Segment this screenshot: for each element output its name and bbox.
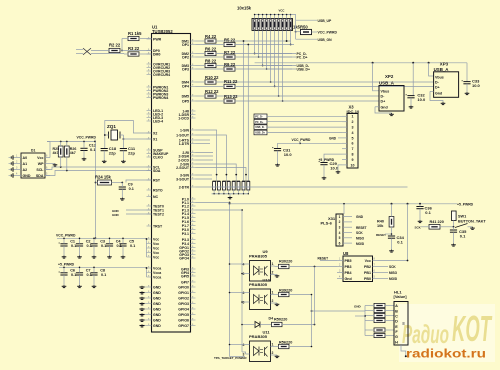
- U8 right net labels: [378, 266, 389, 268]
- wire C32 drop: [412, 63, 414, 96]
- wire vertical VCC_PWRD to cap bank: [95, 142, 97, 239]
- svg-text:1-SIN: 1-SIN: [180, 128, 189, 132]
- svg-text:D4: D4: [269, 316, 274, 320]
- svg-text:E: E: [395, 325, 398, 329]
- ground at U9 pin2: [276, 275, 278, 276]
- wire RST to C9 node: [126, 180, 152, 183]
- capacitor C33 10.0: [463, 81, 470, 83]
- svg-text:2-SOUT: 2-SOUT: [176, 166, 190, 170]
- capacitor C18 22p: [101, 148, 108, 150]
- svg-text:GPI5: GPI5: [181, 274, 189, 278]
- ground at C32: [410, 106, 412, 107]
- svg-text:C9: C9: [128, 182, 133, 186]
- svg-text:+5_PWRD: +5_PWRD: [58, 263, 75, 267]
- svg-text:C1: C1: [70, 239, 75, 243]
- capacitor C35 0.1: [450, 229, 457, 231]
- ground at C5: [122, 256, 124, 257]
- svg-text:VCC_PWRD: VCC_PWRD: [77, 135, 97, 139]
- wire HL1 bottom: [401, 345, 406, 356]
- svg-text:PWR: PWR: [153, 37, 162, 41]
- svg-text:22p: 22p: [128, 151, 135, 156]
- svg-text:NC: NC: [153, 195, 159, 199]
- svg-text:VCC_PWRD: VCC_PWRD: [318, 30, 338, 34]
- svg-text:USB_A: USB_A: [379, 81, 395, 86]
- svg-text:2: 2: [272, 351, 274, 355]
- svg-text:R2 22: R2 22: [109, 43, 121, 48]
- svg-text:1: 1: [339, 215, 341, 219]
- svg-text:USB_D-: USB_D-: [255, 126, 264, 129]
- svg-text:0.1: 0.1: [129, 187, 134, 191]
- svg-text:0.1: 0.1: [460, 233, 466, 238]
- twisted pair crossing: [83, 48, 91, 55]
- wire C33 drop: [466, 63, 468, 82]
- svg-text:A2: A2: [23, 168, 28, 172]
- resistor pack to HL1 group2: [374, 328, 385, 332]
- svg-text:3: 3: [339, 226, 341, 230]
- svg-text:RESET: RESET: [376, 233, 386, 237]
- svg-text:GND: GND: [153, 285, 161, 289]
- wire U11 input branches: [230, 344, 246, 346]
- wire Vcca pin chain: [146, 267, 148, 277]
- svg-text:PB2: PB2: [364, 265, 371, 269]
- svg-text:radiokot.ru: radiokot.ru: [406, 349, 486, 361]
- ground at C35: [453, 244, 455, 245]
- resistor R25 4k7: [58, 146, 63, 157]
- svg-text:A1: A1: [23, 162, 28, 166]
- wire Vcc pin chain: [146, 238, 148, 257]
- node PC_D-: [255, 53, 296, 55]
- svg-text:GPIO2: GPIO2: [178, 296, 189, 300]
- svg-text:DP4: DP4: [182, 85, 189, 89]
- svg-text:R12 22: R12 22: [205, 89, 219, 94]
- svg-text:Vcc: Vcc: [153, 242, 159, 246]
- svg-text:RSTO: RSTO: [153, 188, 163, 192]
- svg-text:PB0: PB0: [364, 277, 371, 281]
- wire crystal to X2: [105, 121, 152, 136]
- svg-text:USB_ON: USB_ON: [318, 38, 333, 42]
- svg-text:2-DTR: 2-DTR: [179, 185, 190, 189]
- svg-text:MOSI: MOSI: [389, 277, 397, 281]
- svg-text:GND: GND: [153, 324, 161, 328]
- svg-text:8: 8: [352, 153, 354, 157]
- svg-text:LED-4: LED-4: [153, 119, 163, 123]
- svg-text:GND: GND: [153, 291, 161, 295]
- svg-text:6: 6: [352, 142, 354, 146]
- svg-text:A: A: [395, 304, 398, 308]
- svg-text:C6: C6: [70, 268, 75, 272]
- svg-text:R9 22: R9 22: [224, 62, 236, 67]
- hub IC U1 TUSB2052 body: [152, 34, 191, 333]
- svg-text:PLS-6: PLS-6: [321, 221, 333, 226]
- U1 right pin labels and stubs: [176, 39, 195, 328]
- svg-text:1-DCD: 1-DCD: [178, 116, 189, 120]
- svg-text:D+: D+: [435, 86, 440, 90]
- svg-text:PRAB305: PRAB305: [249, 334, 268, 339]
- svg-text:XP2: XP2: [385, 74, 394, 79]
- svg-text:X1: X1: [153, 137, 157, 141]
- wire U10 input branches: [230, 292, 246, 294]
- svg-text:2: 2: [272, 271, 274, 275]
- svg-text:10.0: 10.0: [417, 97, 426, 102]
- svg-text:Vcc: Vcc: [365, 259, 371, 263]
- svg-text:R3 22: R3 22: [128, 46, 140, 51]
- svg-text:C2: C2: [86, 239, 91, 243]
- svg-text:Gnd: Gnd: [345, 277, 352, 281]
- wire U9 input branches: [230, 263, 246, 265]
- svg-text:USB_D+: USB_D+: [255, 132, 265, 135]
- ground at C12: [83, 158, 85, 159]
- ground at C1: [63, 256, 65, 257]
- node GND at X3 pin5: [338, 137, 342, 139]
- svg-text:KOT: KOT: [452, 308, 493, 349]
- svg-text:VCC_PWRD: VCC_PWRD: [56, 234, 76, 238]
- svg-text:GPIO4: GPIO4: [178, 307, 189, 311]
- svg-text:6: 6: [339, 241, 341, 245]
- svg-text:RST: RST: [153, 178, 161, 182]
- svg-text:D: D: [395, 320, 398, 324]
- protection diode array: [213, 182, 216, 191]
- svg-text:Gnd: Gnd: [381, 105, 388, 109]
- svg-text:4: 4: [243, 343, 245, 347]
- ground at C4: [109, 256, 111, 257]
- ground at C29: [323, 177, 325, 178]
- wire TEST2 net label: [126, 213, 152, 215]
- svg-text:C5: C5: [129, 239, 134, 243]
- svg-text:RESET: RESET: [356, 226, 367, 230]
- svg-text:4: 4: [243, 262, 245, 266]
- svg-text:PRAB305: PRAB305: [249, 282, 268, 287]
- wire rail drop to X31: [343, 204, 345, 214]
- vertical bus wires from network: [254, 31, 256, 54]
- svg-text:G: G: [395, 335, 398, 339]
- svg-text:4k7: 4k7: [53, 151, 59, 155]
- wire serial row stubs: [196, 139, 211, 141]
- svg-text:GPIO6: GPIO6: [178, 318, 189, 322]
- ground at C33: [466, 92, 468, 93]
- wire P1.1 to bus: [196, 202, 230, 204]
- svg-text:1: 1: [272, 343, 274, 347]
- svg-text:10k: 10k: [377, 224, 384, 228]
- ground at C36: [419, 220, 421, 221]
- resistor pack to HL1 group1: [374, 303, 385, 307]
- svg-text:10.0: 10.0: [284, 152, 293, 157]
- svg-text:GPIO5: GPIO5: [178, 313, 189, 317]
- ground at C18: [103, 160, 105, 161]
- svg-text:Радио: Радио: [402, 319, 449, 349]
- svg-text:4: 4: [352, 131, 354, 135]
- svg-text:P3.1: P3.1: [182, 232, 189, 236]
- svg-text:3-SOUT: 3-SOUT: [176, 177, 190, 181]
- ground at XP2: [391, 113, 393, 114]
- wire mid vertical V1: [312, 310, 366, 312]
- svg-text:Vcca: Vcca: [153, 266, 161, 270]
- svg-text:TRST: TRST: [153, 224, 163, 228]
- svg-text:GND: GND: [329, 136, 337, 140]
- svg-text:1: 1: [272, 262, 274, 266]
- svg-text:PC_D-: PC_D-: [255, 115, 263, 118]
- wire bus B vertical: [241, 210, 243, 352]
- svg-text:GPIO7: GPIO7: [178, 324, 189, 328]
- svg-text:VCC: VCC: [279, 9, 285, 13]
- svg-text:D+: D+: [381, 100, 386, 104]
- svg-text:PB4: PB4: [345, 271, 352, 275]
- svg-text:MOSI: MOSI: [356, 242, 364, 246]
- grounds at D1 address pins: [12, 155, 14, 159]
- wire P1.3 to bus: [196, 209, 243, 211]
- svg-text:R11 22: R11 22: [224, 79, 238, 84]
- svg-text:X2: X2: [153, 131, 157, 135]
- ground symbols at U1 GND pins: [140, 286, 147, 327]
- svg-text:R41 220: R41 220: [430, 220, 444, 224]
- svg-text:Vcca: Vcca: [153, 271, 161, 275]
- svg-text:0.1: 0.1: [71, 244, 76, 248]
- svg-text:0.1: 0.1: [101, 244, 106, 248]
- svg-text:+5_PWRD: +5_PWRD: [457, 203, 474, 207]
- svg-text:0.1: 0.1: [101, 273, 106, 277]
- svg-text:2: 2: [339, 220, 341, 224]
- svg-text:9: 9: [352, 158, 354, 162]
- svg-text:GND: GND: [153, 318, 161, 322]
- svg-text:Vcc: Vcc: [153, 237, 159, 241]
- svg-text:GND: GND: [112, 213, 120, 217]
- svg-text:SDA: SDA: [36, 174, 44, 178]
- svg-text:GND: GND: [153, 307, 161, 311]
- svg-text:0.1: 0.1: [425, 210, 431, 215]
- svg-text:SW1: SW1: [458, 214, 466, 218]
- svg-text:R50220: R50220: [274, 317, 287, 321]
- wire XP2 vbus drop: [373, 63, 379, 91]
- wire XP3 vbus drop: [429, 63, 434, 76]
- node USB_D-: [263, 65, 296, 67]
- wire R50 node: [296, 19, 317, 21]
- capacitor C29 10.0: [320, 162, 327, 164]
- node USB_ON: [296, 38, 317, 40]
- svg-text:GND: GND: [356, 215, 364, 219]
- svg-text:C7: C7: [86, 268, 91, 272]
- svg-text:2: 2: [272, 299, 274, 303]
- svg-text:TUSB2052: TUSB2052: [152, 29, 173, 34]
- capacitor C36 0.1: [416, 206, 423, 208]
- svg-text:Gnd: Gnd: [435, 91, 442, 95]
- wire SCL net to U1: [45, 167, 152, 170]
- svg-text:10.0: 10.0: [472, 83, 481, 88]
- svg-text:R7 22: R7 22: [224, 50, 236, 55]
- network top rail wire: [255, 14, 291, 16]
- capacitor C32 10.0: [407, 95, 414, 97]
- svg-text:SCK: SCK: [415, 226, 422, 230]
- svg-text:GND: GND: [153, 313, 161, 317]
- svg-text:USB_A: USB_A: [434, 67, 450, 72]
- switch SW1 BUTTON_TAKT: [452, 211, 457, 221]
- svg-text:USB_D+: USB_D+: [297, 68, 310, 72]
- svg-text:10: 10: [351, 163, 355, 167]
- wire X3 pin8 to C29: [324, 154, 342, 162]
- svg-text:4: 4: [243, 291, 245, 295]
- svg-text:DM0: DM0: [153, 52, 160, 56]
- svg-text:R1 1k5: R1 1k5: [128, 31, 142, 36]
- ground at C7: [79, 285, 81, 286]
- node junction R4 row: [286, 40, 288, 42]
- wire DM1 down to diode array: [243, 41, 245, 182]
- svg-text:5: 5: [339, 236, 341, 240]
- svg-text:[Value]: [Value]: [394, 294, 408, 299]
- svg-text:2: 2: [352, 120, 354, 124]
- svg-text:Vcca: Vcca: [153, 275, 161, 279]
- svg-text:DP3: DP3: [182, 67, 189, 71]
- svg-text:ZQ1: ZQ1: [107, 124, 116, 129]
- wire C18 drop: [104, 135, 106, 149]
- ground at C3: [93, 256, 95, 257]
- svg-text:R6 22: R6 22: [205, 46, 217, 51]
- svg-text:BUTTON_TAKT: BUTTON_TAKT: [458, 220, 486, 224]
- wire DP1 down to diode array: [247, 45, 249, 182]
- svg-text:OVRCUR4: OVRCUR4: [153, 73, 170, 77]
- ground at C8: [93, 285, 95, 286]
- svg-text:DM4: DM4: [182, 80, 189, 84]
- svg-text:DM5: DM5: [182, 94, 189, 98]
- svg-text:PWRON4: PWRON4: [153, 96, 168, 100]
- ground at C2: [79, 256, 81, 257]
- ground at C6: [63, 285, 65, 286]
- svg-text:CLKO: CLKO: [153, 155, 163, 159]
- svg-text:C: C: [395, 315, 398, 319]
- svg-text:MISO: MISO: [389, 271, 398, 275]
- svg-text:R8 22: R8 22: [205, 58, 217, 63]
- svg-text:GPO4: GPO4: [179, 256, 189, 260]
- wire 2-DTR long line: [196, 186, 408, 188]
- wire crystal to X1: [123, 138, 151, 140]
- svg-text:TEST2: TEST2: [153, 212, 164, 216]
- svg-text:H: H: [395, 340, 398, 344]
- resistor R26 4k7: [64, 146, 69, 157]
- svg-text:PB5: PB5: [345, 259, 352, 263]
- svg-text:DP2: DP2: [182, 55, 189, 59]
- node USB_D+: [267, 68, 296, 70]
- svg-text:GPIO1: GPIO1: [178, 291, 189, 295]
- svg-text:Vcc: Vcc: [153, 251, 159, 255]
- svg-text:Vbus: Vbus: [435, 75, 444, 79]
- wire X3 pin10 down: [338, 165, 342, 171]
- svg-text:GPI7: GPI7: [181, 280, 189, 284]
- svg-text:Vbus: Vbus: [381, 89, 390, 93]
- svg-text:SCL: SCL: [36, 168, 44, 172]
- svg-text:R5 22: R5 22: [224, 37, 236, 42]
- svg-text:A0: A0: [23, 156, 28, 160]
- svg-text:4: 4: [339, 231, 341, 235]
- svg-text:RESET: RESET: [318, 257, 329, 261]
- svg-text:DP5: DP5: [182, 99, 189, 103]
- svg-text:10.0: 10.0: [330, 165, 339, 170]
- capacitor C11 22p: [120, 148, 127, 150]
- svg-text:1-SOUT: 1-SOUT: [176, 133, 190, 137]
- svg-text:DP1: DP1: [182, 43, 189, 47]
- svg-text:PC_D+: PC_D+: [297, 56, 308, 60]
- svg-text:22p: 22p: [109, 151, 116, 156]
- capacitor C31 10.0: [277, 143, 279, 148]
- svg-text:3: 3: [243, 300, 245, 304]
- svg-text:SCK: SCK: [389, 265, 396, 269]
- svg-text:GND: GND: [354, 305, 362, 309]
- svg-text:PC_D+: PC_D+: [255, 121, 264, 124]
- svg-text:0.1: 0.1: [71, 273, 76, 277]
- svg-text:Vcc: Vcc: [37, 156, 43, 160]
- wire SDA net to U1: [45, 171, 152, 176]
- svg-text:1: 1: [352, 115, 354, 119]
- net stub boxes to X3: [254, 114, 267, 119]
- svg-text:PRAB305: PRAB305: [249, 254, 268, 259]
- svg-text:R10 22: R10 22: [205, 75, 219, 80]
- svg-text:4k7: 4k7: [70, 151, 76, 155]
- watermark background: [399, 304, 495, 362]
- wire mid vertical V2: [314, 267, 316, 325]
- svg-text:R24 15k: R24 15k: [95, 175, 112, 180]
- svg-text:0.1: 0.1: [130, 244, 135, 248]
- svg-text:1: 1: [272, 291, 274, 295]
- svg-text:3: 3: [243, 272, 245, 276]
- ground at U10 pin2: [276, 303, 278, 304]
- node PC_D+: [259, 56, 296, 58]
- svg-text:3: 3: [352, 126, 354, 130]
- svg-text:GND: GND: [153, 296, 161, 300]
- ground at C31: [277, 164, 279, 165]
- svg-text:PB3: PB3: [345, 265, 352, 269]
- ground at XP3: [442, 102, 444, 103]
- ground at C34: [391, 250, 393, 251]
- svg-text:WP: WP: [38, 162, 44, 166]
- svg-text:B: B: [395, 309, 398, 313]
- svg-text:Vcc: Vcc: [153, 255, 159, 259]
- U1 left pin labels and stubs: [147, 37, 171, 328]
- svg-text:GPIO3: GPIO3: [178, 302, 189, 306]
- wire D4 branch: [242, 324, 250, 326]
- svg-text:GND: GND: [153, 302, 161, 306]
- svg-text:SDA: SDA: [153, 169, 161, 173]
- wire +5_PWRD rail: [230, 203, 458, 205]
- svg-text:5: 5: [352, 136, 354, 140]
- svg-text:10x15k: 10x15k: [237, 5, 252, 10]
- capacitor C34 0.1: [388, 235, 395, 237]
- svg-text:R30220: R30220: [279, 259, 292, 263]
- svg-text:R40: R40: [377, 220, 384, 224]
- ground at C9: [121, 198, 123, 199]
- svg-text:USB_UP: USB_UP: [318, 19, 332, 23]
- wire serial lines to protection diodes: [196, 130, 217, 178]
- wire D1 Vcc to pullup rail: [49, 142, 51, 158]
- svg-text:R13 22: R13 22: [224, 94, 238, 99]
- ground at C11: [122, 160, 124, 161]
- wire vertical at HL1 resistors: [364, 306, 366, 336]
- svg-text:SCK: SCK: [356, 231, 363, 235]
- ground at U11 pin2: [276, 355, 278, 356]
- svg-text:U8: U8: [343, 251, 349, 256]
- wire U8 Vcc up to rail: [378, 204, 408, 261]
- svg-text:GPIO0: GPIO0: [178, 285, 189, 289]
- svg-text:MISO: MISO: [356, 237, 365, 241]
- svg-text:1-DTR: 1-DTR: [179, 142, 190, 146]
- svg-text:0.1: 0.1: [397, 239, 403, 244]
- svg-text:PB1: PB1: [364, 271, 371, 275]
- svg-text:VCC_PWRD: VCC_PWRD: [292, 138, 311, 142]
- svg-text:GND: GND: [23, 174, 31, 178]
- wire VBUS rail: [255, 62, 467, 64]
- svg-text:C8: C8: [100, 268, 105, 272]
- ground at diode array: [229, 196, 231, 197]
- wire bus A vertical: [229, 203, 231, 357]
- svg-text:Vcc: Vcc: [153, 246, 159, 250]
- wire X3 pin6 to C31: [300, 142, 342, 144]
- svg-text:7: 7: [352, 147, 354, 151]
- svg-text:D1: D1: [31, 149, 35, 153]
